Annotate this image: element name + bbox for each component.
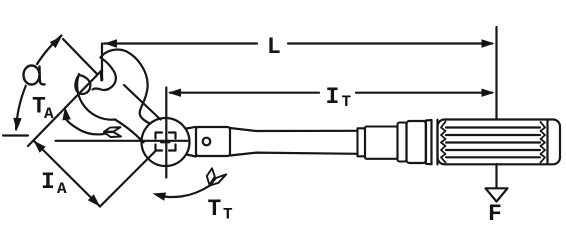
- ratchet head circle: [142, 118, 190, 166]
- grip right knurl zigzag: [541, 122, 546, 163]
- open-end wrench head outer arc flowing into neck upper edge: [101, 50, 150, 124]
- T_T tail leaf 1: [207, 168, 215, 185]
- T_A tail leaf 2: [104, 132, 121, 137]
- arrowhead T_A: [62, 107, 70, 120]
- arrowhead I_A upper: [34, 141, 46, 153]
- svg-text:T: T: [223, 206, 233, 224]
- grip ring D: [426, 120, 432, 164]
- neck lower edge: [115, 120, 144, 143]
- grip ring E: [432, 120, 438, 165]
- lower horn tip curl loop: [75, 75, 90, 94]
- beam taper bottom: [230, 153, 358, 156]
- ratchet center dash: [162, 140, 170, 143]
- connector circle to block bottom: [187, 155, 197, 157]
- T_A tail leaf 1: [104, 127, 121, 132]
- neck centerline: [124, 85, 161, 120]
- svg-text:I: I: [41, 169, 55, 195]
- arrowhead I_A lower: [88, 194, 100, 206]
- arrowhead arc top: [50, 36, 62, 48]
- force arrow F line: [495, 164, 497, 188]
- label a (hand-drawn single-storey a): [21, 64, 44, 87]
- open-end wrench lower horn outer arc: [77, 74, 115, 120]
- jaw center dash: [100, 73, 104, 81]
- grip cap separator: [546, 120, 548, 164]
- arrowhead I_T left: [168, 89, 181, 97]
- arrowhead I_T right: [482, 89, 495, 97]
- square drive block: [196, 127, 230, 156]
- grip groove 1: [446, 126, 540, 128]
- svg-text:T: T: [208, 196, 222, 222]
- dimension line I_A: [34, 141, 101, 207]
- svg-text:F: F: [488, 201, 502, 227]
- svg-text:T: T: [342, 93, 352, 111]
- extension line C through pivot perpendicular to adapter axis: [100, 151, 156, 207]
- mid collar section: [365, 127, 398, 159]
- adjuster lock collar: [407, 121, 427, 163]
- ratchet center target bracket top-right: [169, 133, 176, 139]
- svg-text:L: L: [267, 34, 281, 60]
- torque arrow T_A arc: [67, 120, 106, 135]
- arrowhead L left: [104, 39, 117, 47]
- ratchet center target bracket bottom-left: [156, 145, 163, 151]
- arrowhead T_T: [153, 193, 167, 201]
- knurled grip body: [438, 120, 561, 165]
- grip groove 5: [446, 156, 540, 158]
- ratchet horizontal crosshair: [56, 140, 189, 142]
- grip groove 2: [446, 134, 540, 136]
- horizontal reference tick: [3, 134, 28, 136]
- connector circle to block top: [187, 127, 197, 129]
- pin hole in block: [203, 138, 211, 146]
- extension line from jaw center up to L: [101, 44, 103, 80]
- T_T tail leaf 2: [210, 174, 226, 185]
- dimension line I_T: [170, 92, 492, 94]
- svg-text:A: A: [57, 180, 67, 198]
- svg-text:I: I: [326, 84, 340, 110]
- ratchet center target bracket top-left: [156, 133, 163, 139]
- force arrowhead (open): [486, 188, 508, 201]
- ratchet center target bracket bottom-right: [169, 145, 176, 151]
- grip left knurl zigzag: [441, 122, 446, 163]
- upper horn inner edge and jaw slot cup: [93, 58, 116, 90]
- beam taper top: [230, 128, 358, 131]
- dimension line L: [104, 42, 492, 44]
- ratchet vertical crosshair: [165, 88, 167, 178]
- grip groove 4: [446, 149, 540, 151]
- jaw transverse centerline (line B): [28, 70, 102, 146]
- collar ring B: [398, 123, 407, 162]
- torque arrow T_T arc: [165, 186, 210, 198]
- arrowhead L right: [482, 39, 495, 47]
- adapter axis centerline: [63, 39, 97, 74]
- arrowhead arc bottom: [13, 118, 21, 131]
- svg-text:A: A: [44, 105, 54, 123]
- angle dimension arc a: [16, 36, 62, 130]
- step ring A: [358, 128, 366, 156]
- grip groove 3: [446, 141, 540, 143]
- right extension line at force point: [495, 27, 497, 119]
